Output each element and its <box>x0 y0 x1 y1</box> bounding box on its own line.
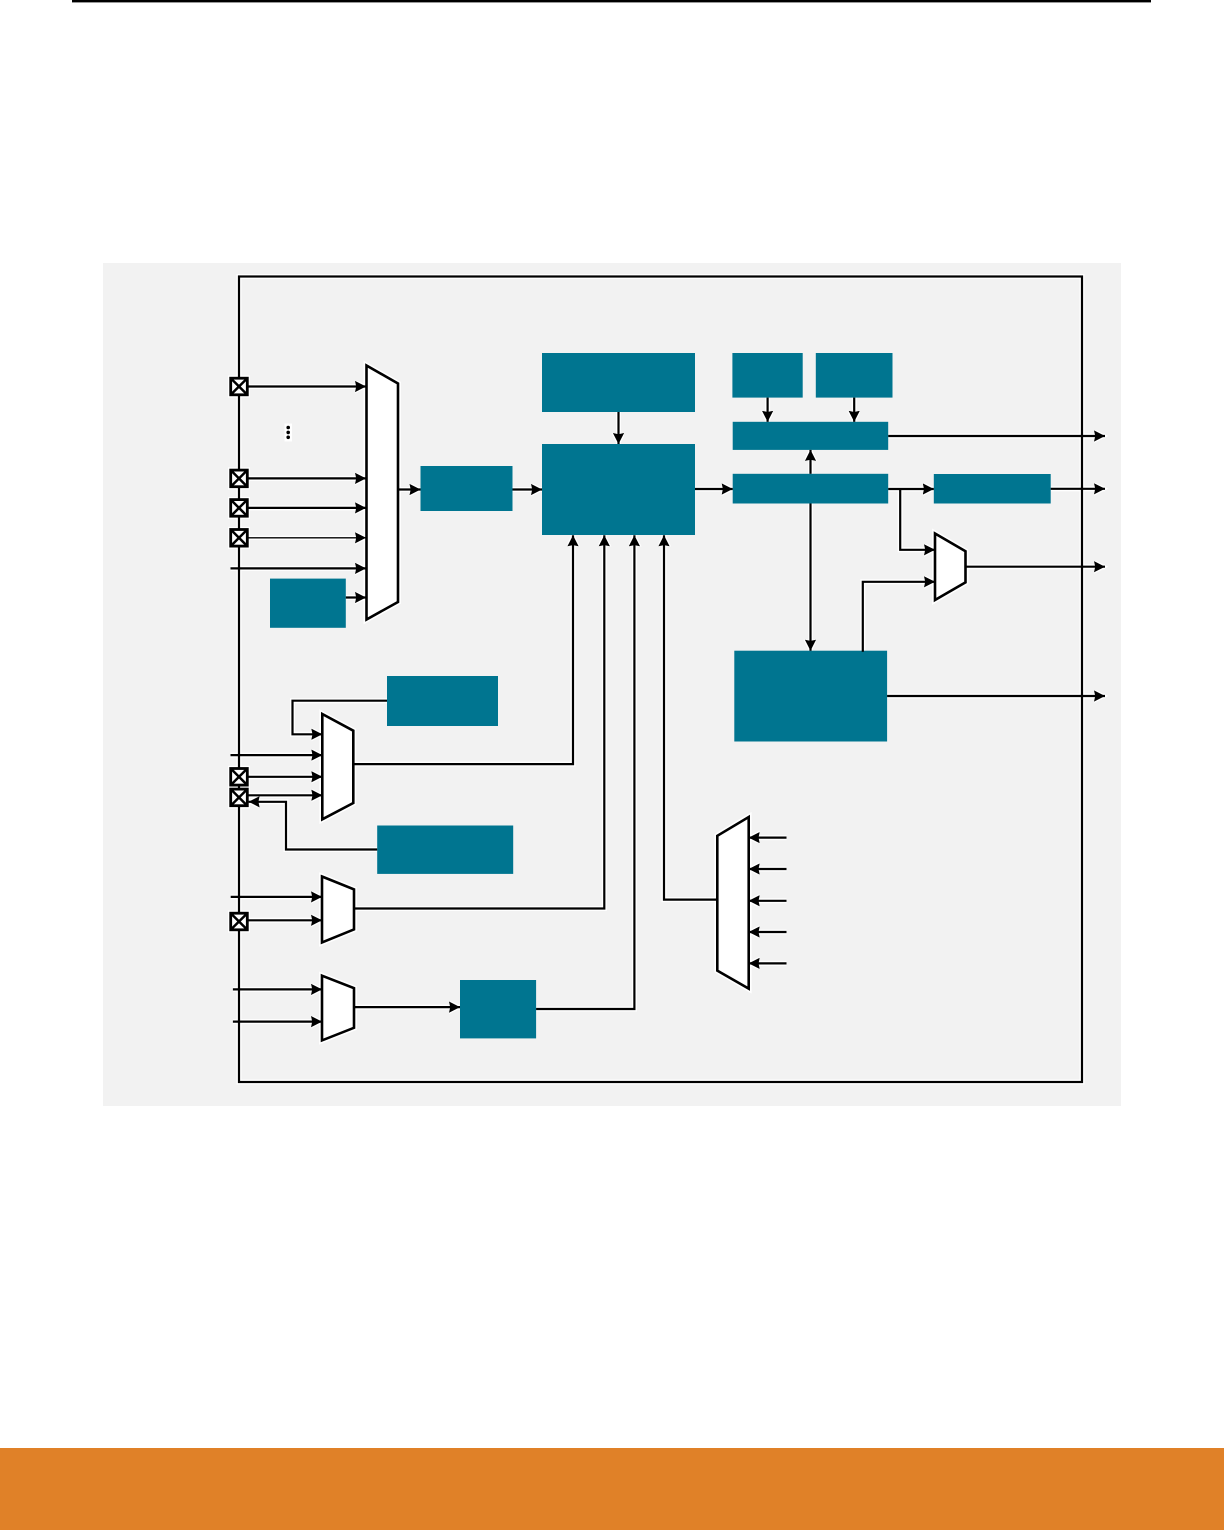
block B adc core <box>542 444 695 535</box>
wire input stub2 to mux U4 <box>233 1020 322 1022</box>
casing layer for chip boundary and wires <box>231 277 1106 1083</box>
wire pin5 to mux U2 <box>247 776 322 778</box>
wire input stub to mux U3 <box>231 896 322 898</box>
wire block C to bar E <box>766 398 768 422</box>
block D <box>816 353 893 398</box>
mux U5 <box>935 534 966 601</box>
wire stub1 to mux U6 <box>749 836 787 838</box>
bar E <box>733 422 889 450</box>
wire block I to block B <box>513 488 543 490</box>
wire pin4 to mux U1 <box>247 537 366 539</box>
wire input stub to mux U2 <box>231 754 323 756</box>
wire mux U1 to block I <box>398 488 421 490</box>
mux U3 <box>322 877 354 943</box>
wire bar F to block H <box>809 504 811 651</box>
wire pin3 to mux U1 <box>247 507 366 509</box>
wire bar F to block G <box>888 488 934 490</box>
wire pin1 to mux U1 <box>247 385 366 387</box>
chip boundary <box>239 277 1082 1083</box>
wire block L to pin6 <box>249 802 378 850</box>
mux U1 <box>367 366 399 620</box>
pin 7 <box>231 913 248 930</box>
top rule <box>72 0 1151 2</box>
wire stub5 to mux U6 <box>749 962 787 964</box>
wire pin6 to mux U2 <box>247 794 322 796</box>
wire junction to mux U5 <box>900 489 935 550</box>
wire block M to block B <box>536 535 634 1009</box>
wire bar E to output <box>888 435 1105 437</box>
block H <box>734 651 887 742</box>
wire mux U5 to output <box>966 566 1106 568</box>
block K osc <box>387 676 498 726</box>
block C <box>732 353 802 398</box>
wire block G to output <box>1051 488 1105 490</box>
footer bar <box>0 1448 1224 1530</box>
wire block D to bar E <box>853 398 855 422</box>
pin 2 <box>231 470 248 487</box>
mux U4 <box>322 976 354 1041</box>
pin 1 <box>231 378 248 395</box>
wire pin2 to mux U1 <box>247 477 366 479</box>
wire stub2 to mux U6 <box>749 868 787 870</box>
wire mux U3 to block B <box>353 535 604 908</box>
block I <box>421 466 513 511</box>
wire mux U4 to block M <box>354 1006 460 1008</box>
wire block K to mux U2 <box>293 701 388 735</box>
mux U2 <box>322 714 353 819</box>
pin 4 <box>231 530 248 547</box>
wire block J to mux U1 <box>346 596 366 598</box>
wire pin7 to mux U3 <box>247 919 322 921</box>
wire stub3 to mux U6 <box>749 900 787 902</box>
pin 5 <box>231 769 248 786</box>
block A reference <box>542 353 695 412</box>
bar F <box>733 474 889 504</box>
wire block H to mux U5 <box>863 582 935 652</box>
wire stub4 to mux U6 <box>749 931 787 933</box>
wire mux U6 to block B <box>664 535 717 899</box>
block G <box>934 474 1051 504</box>
pin 3 <box>231 500 248 517</box>
block M <box>460 980 536 1038</box>
node ellipsis <box>286 426 290 439</box>
diagram panel background <box>103 263 1121 1106</box>
wire mux U2 to block B <box>353 535 573 764</box>
wire input stub1 to mux U4 <box>233 988 322 990</box>
pin 6 <box>231 789 248 806</box>
wire block B to bar F <box>695 488 733 490</box>
wire block A to block B <box>617 412 619 444</box>
block J <box>270 579 346 628</box>
wire bar F to bar E <box>809 450 811 474</box>
wire input stub to mux U1 <box>231 567 367 569</box>
block L <box>377 826 513 874</box>
mux U6 <box>717 817 748 989</box>
wire block H to output <box>887 695 1105 697</box>
